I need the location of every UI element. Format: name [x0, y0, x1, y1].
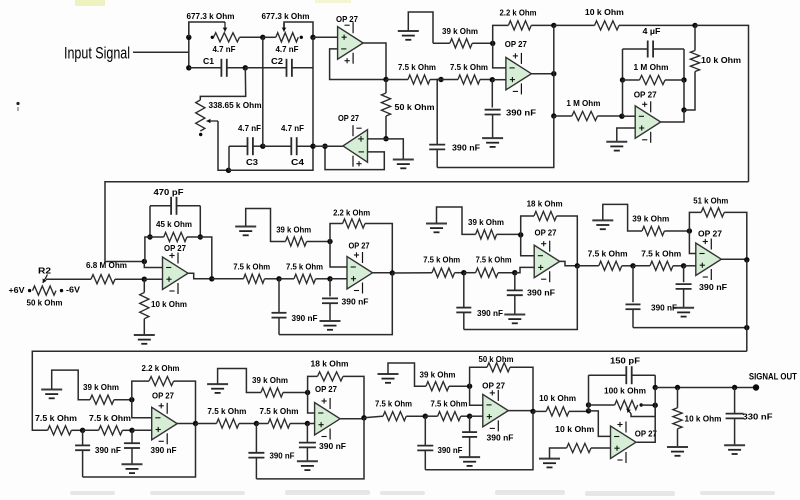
junction dot F (bottom wire)	[226, 168, 231, 173]
junction dot P (1M tap)	[551, 113, 556, 118]
ground symbol GC2	[504, 314, 525, 316]
svg-text:4.7 nF: 4.7 nF	[213, 44, 236, 54]
capacitor 390nF E-left	[82, 430, 84, 445]
resistor R 338.65k body (vertical)	[196, 100, 205, 131]
potentiometer 100k wiper	[631, 414, 656, 417]
junction dot E4 (stage E out)	[193, 421, 198, 426]
svg-text:OP 27: OP 27	[338, 113, 359, 123]
svg-text:50 k Ohm: 50 k Ohm	[395, 102, 435, 112]
junction dot U (U4 out node)	[681, 107, 686, 112]
svg-text:390 nF: 390 nF	[319, 441, 346, 451]
wire GB to 39k	[246, 209, 286, 242]
resistor 39k stage G	[426, 382, 449, 391]
capacitor C3	[229, 145, 247, 147]
svg-text:4.7 nF: 4.7 nF	[281, 123, 304, 133]
junction dot F4 (stage F out)	[361, 415, 366, 420]
svg-text:100 k Ohm: 100 k Ohm	[604, 385, 646, 395]
wire G1 to 39k	[408, 12, 433, 43]
resistor 51k	[689, 212, 701, 231]
junction dot H (C4 right)	[310, 144, 315, 149]
resistor 7.5k stage D #1	[577, 265, 599, 267]
capacitor C4	[263, 145, 291, 147]
ground symbol GD2	[673, 307, 694, 309]
wire node D vertical	[312, 37, 314, 146]
470pF left bracket	[149, 206, 151, 237]
svg-text:1 M Ohm: 1 M Ohm	[634, 62, 669, 72]
resistor 1M feedback	[623, 79, 640, 81]
junction dot F3 (39k/18k node)	[305, 390, 310, 395]
ground symbol GE2	[122, 463, 143, 465]
svg-text:10 k Ohm: 10 k Ohm	[701, 55, 741, 65]
resistor 10k stage A (vertical)	[143, 279, 145, 292]
svg-text:390 nF: 390 nF	[95, 445, 121, 455]
junction dot E3 (39k/2.2k node)	[129, 397, 134, 402]
resistor 7.5k stage C #1	[392, 272, 432, 274]
wire U3 +input	[492, 79, 506, 81]
svg-text:OP 27: OP 27	[635, 429, 657, 439]
op-amp U6	[347, 257, 373, 290]
junction dot D1 (39k/51k node)	[687, 228, 692, 233]
capacitor 390nF C-left	[463, 273, 465, 308]
junction dot F2 (+in node)	[305, 421, 310, 426]
potentiometer 100k body	[589, 404, 615, 406]
junction dot A2 (45k left)	[147, 234, 152, 239]
resistor 10k top	[554, 24, 595, 26]
svg-text:C3: C3	[246, 157, 258, 167]
ground symbol G3	[482, 137, 503, 139]
junction dot J (39k/2.2k node)	[490, 41, 495, 46]
capacitor 390nF row1 #1	[491, 80, 493, 108]
ground symbol G2	[393, 159, 414, 161]
svg-text:10 k Ohm: 10 k Ohm	[539, 393, 576, 403]
svg-text:7.5 k Ohm: 7.5 k Ohm	[89, 413, 131, 423]
resistor 7.5k stage G #1	[364, 416, 383, 418]
junction dot D4 (stage D out)	[744, 257, 749, 262]
wire U9 +input	[132, 429, 152, 431]
svg-text:390 nF: 390 nF	[506, 108, 536, 118]
svg-text:330 nF: 330 nF	[743, 411, 773, 421]
svg-text:2.2 k Ohm: 2.2 k Ohm	[142, 363, 180, 373]
wire GE to 39k	[52, 370, 90, 400]
capacitor 390nF D-left	[632, 266, 634, 302]
svg-text:39 k Ohm: 39 k Ohm	[420, 370, 456, 380]
svg-text:39 k Ohm: 39 k Ohm	[632, 213, 669, 223]
junction dot S (1M2 left)	[620, 77, 625, 82]
resistor 7.5k stage E #2	[83, 429, 99, 431]
svg-text:50 k Ohm: 50 k Ohm	[27, 298, 63, 308]
ground symbol GH3	[724, 444, 745, 446]
svg-text:390 nF: 390 nF	[452, 143, 480, 153]
op-amp U11	[483, 394, 509, 427]
potentiometer R2 wiper arrow	[43, 275, 48, 284]
resistor 2.2k row1	[493, 25, 509, 43]
capacitor 4uF left bracket	[622, 49, 624, 80]
svg-text:338.65 k Ohm: 338.65 k Ohm	[209, 100, 262, 110]
svg-text:OP 27: OP 27	[698, 228, 722, 238]
ground symbol GE	[41, 389, 62, 391]
op-amp U8	[696, 243, 722, 276]
wire U2 +input from 50k node	[368, 138, 387, 140]
svg-text:4 µF: 4 µF	[643, 26, 661, 36]
svg-text:45 k Ohm: 45 k Ohm	[156, 219, 192, 229]
svg-text:7.5 k Ohm: 7.5 k Ohm	[423, 255, 460, 265]
op-amp U5	[163, 257, 189, 290]
svg-text:7.5 k Ohm: 7.5 k Ohm	[450, 62, 488, 72]
resistor 39k row1	[433, 42, 450, 44]
svg-text:39 k Ohm: 39 k Ohm	[252, 375, 288, 385]
wire U12 output	[637, 405, 656, 442]
wire U12 -input	[589, 411, 611, 437]
junction dot B4 (stage B out)	[390, 270, 395, 275]
resistor 7.5k stage C #2	[464, 272, 476, 274]
svg-text:R2: R2	[38, 266, 51, 276]
stage G bottom wire	[425, 411, 533, 469]
wire U11 -input	[470, 386, 483, 405]
resistor 7.5k row1 #1	[386, 79, 408, 81]
wire 1M2 right down	[683, 80, 685, 110]
ground symbol GF2	[297, 460, 318, 462]
resistor 2.2k stage E	[132, 381, 149, 400]
resistor 18k stage F	[308, 376, 318, 392]
svg-text:4.7 nF: 4.7 nF	[276, 44, 299, 54]
wire U9 output	[177, 423, 195, 425]
junction dot C3n (+in node)	[512, 270, 517, 275]
resistor 39k stage E	[90, 395, 114, 404]
wire 45k right to output node	[200, 237, 212, 279]
svg-text:7.5 k Ohm: 7.5 k Ohm	[398, 62, 436, 72]
svg-text:10 k Ohm: 10 k Ohm	[685, 413, 722, 423]
resistor 7.5k stage B #1	[212, 278, 244, 280]
svg-text:7.5 k Ohm: 7.5 k Ohm	[476, 255, 512, 265]
junction dot E (C1 right)	[243, 65, 248, 70]
stage B bottom wire	[279, 273, 392, 335]
svg-text:-6V: -6V	[66, 285, 80, 295]
svg-text:390 nF: 390 nF	[342, 297, 369, 307]
svg-text:C2: C2	[271, 56, 283, 66]
svg-text:39 k Ohm: 39 k Ohm	[83, 382, 119, 392]
capacitor 390nF F-left	[255, 424, 257, 453]
svg-text:OP 27: OP 27	[349, 241, 370, 251]
wire GD to 39k	[603, 204, 642, 231]
capacitor 390nF B-left	[278, 279, 280, 313]
svg-text:390 nF: 390 nF	[527, 288, 555, 298]
junction dot D	[310, 35, 315, 40]
junction dot G3n (39k/50k node)	[467, 384, 472, 389]
svg-text:OP 27: OP 27	[634, 90, 657, 100]
wire U3 output	[531, 73, 553, 75]
junction dot B	[186, 65, 191, 70]
svg-text:OP 27: OP 27	[505, 39, 527, 49]
wire U2 output	[325, 145, 343, 147]
wire U9 -input	[132, 400, 152, 418]
op-amp U3	[506, 57, 532, 90]
junction dot A4 (+in node stage A)	[142, 277, 147, 282]
bottom wire to C4 node	[229, 146, 314, 170]
junction dot A3 (45k right)	[198, 234, 203, 239]
wire U4 +input to ground	[617, 128, 635, 142]
ground symbol GG	[378, 373, 399, 375]
junction dot F1	[254, 421, 259, 426]
svg-text:470 pF: 470 pF	[154, 187, 184, 197]
junction dot M (U3 +in node)	[490, 77, 495, 82]
resistor 45k	[150, 236, 164, 238]
junction dot V (10k vert top)	[692, 23, 697, 28]
junction dot O (U3 out)	[551, 71, 556, 76]
junction dot C (between 677.3k resistors)	[260, 35, 265, 40]
ground symbol GA	[134, 334, 155, 336]
svg-text:390 nF: 390 nF	[270, 450, 295, 460]
ground symbol GF	[207, 383, 228, 385]
junction dot H3 (output node)	[653, 385, 658, 390]
wire U6 -input	[330, 242, 347, 268]
junction dot H6	[732, 385, 737, 390]
svg-text:677.3 k Ohm: 677.3 k Ohm	[187, 11, 235, 21]
svg-text:150 pF: 150 pF	[610, 355, 640, 365]
svg-text:390 nF: 390 nF	[151, 445, 177, 455]
junction dot Q (U2 fb)	[322, 144, 327, 149]
wire U8 -input	[689, 231, 695, 254]
capacitor 390nF row1 #2	[437, 79, 441, 81]
junction dot G2n (+in node)	[467, 414, 472, 419]
svg-text:7.5 k Ohm: 7.5 k Ohm	[641, 249, 681, 259]
wire U5 +input	[144, 278, 162, 280]
svg-text:390 nF: 390 nF	[477, 308, 503, 318]
wire U10 +input	[307, 423, 314, 425]
ground symbol GB	[235, 226, 256, 228]
resistor 7.5k stage E #1	[48, 426, 72, 435]
svg-text:18 k Ohm: 18 k Ohm	[311, 359, 349, 369]
junction dot B1 (39k/2.2k node)	[327, 239, 332, 244]
svg-text:OP 27: OP 27	[336, 14, 358, 24]
junction dot D3 (+in node)	[681, 263, 686, 268]
junction dot A	[186, 35, 191, 40]
junction dot K (2.2k to U3 out top)	[551, 23, 556, 28]
junction dot A5 (stage A out)	[209, 276, 214, 281]
op-amp U4	[635, 106, 661, 139]
resistor 50k vertical	[385, 80, 387, 94]
node left vertical	[188, 22, 190, 68]
svg-text:7.5 k Ohm: 7.5 k Ohm	[286, 262, 323, 272]
junction dot D2	[630, 263, 635, 268]
svg-text:7.5 k Ohm: 7.5 k Ohm	[260, 406, 299, 416]
junction dot C1n (39k/18k node)	[518, 232, 523, 237]
capacitor 390nF B-mid	[329, 279, 331, 297]
svg-text:390 nF: 390 nF	[699, 282, 727, 292]
junction dot E1	[80, 428, 85, 433]
wire input to node	[133, 51, 189, 53]
resistor 7.5k stage B #2	[279, 278, 294, 280]
capacitor 150pF	[589, 374, 627, 376]
capacitor 4uF right bracket	[683, 49, 685, 80]
resistor 18k	[521, 216, 534, 235]
junction dot N (U2 +in node)	[383, 136, 388, 141]
150pF left bracket	[588, 375, 590, 411]
svg-text:Input Signal: Input Signal	[64, 44, 130, 63]
ground symbol GG2	[459, 456, 480, 458]
resistor R 677.3k #1 wiper bracket	[189, 22, 225, 37]
svg-text:OP 27: OP 27	[482, 380, 505, 390]
junction dot H4 (100k right node)	[653, 403, 658, 408]
svg-text:390 nF: 390 nF	[292, 313, 318, 323]
ground symbol GD	[592, 219, 613, 221]
wire U10 -input	[308, 393, 315, 414]
resistor 7.5k stage D #2	[633, 265, 650, 267]
wire U11 +input	[470, 415, 483, 417]
150pF right bracket	[654, 375, 656, 387]
svg-text:OP 27: OP 27	[164, 243, 186, 253]
potentiometer R2 body	[28, 289, 31, 292]
long wire row2 to row3	[32, 351, 747, 430]
wire U8 +input	[684, 265, 696, 267]
capacitor 390nF C-mid	[514, 273, 516, 291]
svg-text:4.7 nF: 4.7 nF	[238, 123, 261, 133]
svg-text:6.8 M Ohm: 6.8 M Ohm	[86, 260, 127, 270]
wire row1 output to row2 (top right)	[695, 25, 749, 181]
svg-text:2.2 k Ohm: 2.2 k Ohm	[333, 208, 370, 218]
wire 100k/150pF node vertical	[654, 388, 656, 406]
wire U6 output	[373, 272, 393, 274]
wire U2 +input to ground	[386, 139, 403, 160]
wire GF to 39k	[218, 369, 261, 393]
junction dot G (between C3 C4)	[260, 144, 265, 149]
junction dot G1n	[423, 414, 428, 419]
wire D out vertical	[746, 260, 748, 352]
svg-text:7.5 k Ohm: 7.5 k Ohm	[375, 399, 412, 409]
junction dot B2	[276, 276, 281, 281]
ground symbol G1	[398, 30, 419, 32]
svg-text:2.2 k Ohm: 2.2 k Ohm	[500, 8, 537, 18]
wire U7 -input	[521, 235, 535, 256]
junction dot H2 (input node upper)	[586, 402, 591, 407]
wire U1 -input feedback	[330, 49, 386, 80]
terminal dot SIGNAL OUT	[753, 384, 759, 390]
svg-text:7.5 k Ohm: 7.5 k Ohm	[207, 406, 246, 416]
resistor R 677.3k #2 wiper bracket	[284, 22, 313, 37]
resistor 39k stage B	[286, 237, 307, 246]
wire U10 output	[340, 418, 364, 420]
wire GG to 39k	[388, 363, 426, 386]
op-amp U7	[534, 245, 560, 278]
resistor 10k output (vertical)	[677, 388, 679, 408]
svg-text:10 k Ohm: 10 k Ohm	[555, 424, 594, 434]
junction dot B3 (+in node)	[327, 276, 332, 281]
resistor 39k stage F	[261, 388, 283, 397]
svg-text:C4: C4	[291, 157, 304, 167]
junction dot H5	[675, 385, 680, 390]
resistor R 677.3k #2 body	[263, 36, 276, 38]
capacitor 390nF G-mid	[469, 416, 471, 432]
svg-text:10 k Ohm: 10 k Ohm	[151, 299, 187, 309]
resistor 7.5k stage G #2	[425, 415, 437, 417]
resistor 7.5k stage F #2	[256, 423, 268, 425]
wire U4 output	[661, 110, 684, 122]
resistor 10k stage H in	[533, 410, 546, 412]
svg-text:7.5 k Ohm: 7.5 k Ohm	[233, 262, 270, 272]
junction dot I (U1 out node)	[383, 77, 388, 82]
capacitor 330nF	[734, 388, 736, 414]
svg-text:7.5 k Ohm: 7.5 k Ohm	[431, 399, 468, 409]
wire U3 -input	[493, 43, 506, 68]
op-amp U12	[611, 426, 637, 459]
bottom edge artifacts	[70, 490, 775, 496]
resistor 50k stage G	[470, 367, 487, 386]
svg-text:+6V: +6V	[9, 285, 25, 295]
ground symbol GH1	[539, 458, 560, 460]
yellow smudge artifacts	[75, 0, 105, 6]
svg-text:39 k Ohm: 39 k Ohm	[442, 26, 478, 36]
stage E bottom wire	[83, 424, 196, 478]
speck artifact left	[16, 102, 19, 105]
svg-text:7.5 k Ohm: 7.5 k Ohm	[588, 249, 628, 259]
stage C bottom wire	[464, 266, 578, 330]
ground symbol GH2	[667, 446, 688, 448]
wire U8 output	[721, 258, 747, 260]
resistor 39k stage C	[476, 230, 497, 239]
wire U7 +input	[515, 267, 534, 272]
bottom wire row1 (to 1M tap)	[437, 116, 554, 168]
wire U1 +input	[313, 36, 338, 38]
ground symbol GC	[426, 223, 447, 225]
resistor 7.5k row1 #2	[441, 79, 458, 81]
svg-text:51 k Ohm: 51 k Ohm	[693, 195, 728, 205]
resistor 39k stage D	[642, 226, 664, 235]
wire U4 -input	[622, 115, 635, 117]
wire C1-right down to 338.65k	[200, 68, 245, 100]
junction dot T (1M2 right)	[681, 77, 686, 82]
470pF right bracket	[199, 206, 201, 237]
wire node C vertical	[262, 37, 264, 146]
svg-text:390 nF: 390 nF	[651, 303, 677, 313]
long wire row1 to row2	[105, 182, 749, 262]
wire U1 output	[363, 43, 386, 80]
wire U6 +input	[330, 278, 347, 280]
svg-text:390 nF: 390 nF	[438, 445, 463, 455]
capacitor 390nF D-mid	[683, 266, 685, 282]
wire U5 output	[188, 273, 212, 279]
svg-text:10 k Ohm: 10 k Ohm	[585, 7, 624, 17]
resistor R 338.65k wiper arrow and wire	[207, 120, 219, 122]
wire 1M2 left down	[622, 80, 624, 116]
svg-text:1 M Ohm: 1 M Ohm	[566, 98, 600, 108]
resistor 10k vertical right	[694, 25, 696, 50]
svg-text:390 nF: 390 nF	[487, 432, 514, 442]
junction dot E2 (+in node)	[129, 428, 134, 433]
capacitor 470pF	[150, 205, 171, 207]
op-amp U1	[338, 27, 364, 60]
junction dot C2n	[461, 270, 466, 275]
svg-text:C1: C1	[203, 56, 214, 66]
op-amp U9	[152, 407, 178, 440]
wire U2 -input feedback	[325, 146, 384, 169]
wire GC to 39k	[437, 207, 476, 234]
svg-text:677.3 k Ohm: 677.3 k Ohm	[262, 11, 310, 21]
svg-text:18 k Ohm: 18 k Ohm	[527, 199, 563, 209]
op-amp U2	[343, 130, 368, 163]
stage D bottom wire	[633, 327, 747, 329]
svg-text:OP 27: OP 27	[315, 384, 337, 394]
wire 45k left to -in node	[145, 237, 150, 262]
junction dot L	[438, 77, 443, 82]
capacitor 4uF	[623, 48, 648, 50]
output line	[655, 387, 756, 389]
svg-text:OP 27: OP 27	[535, 228, 557, 238]
resistor 2.2k stage B	[330, 224, 343, 242]
junction dot D5 (bottom/descend)	[744, 325, 749, 330]
capacitor 390nF F-mid	[306, 424, 308, 443]
resistor 1M row1	[554, 115, 572, 117]
svg-text:OP 27: OP 27	[152, 391, 174, 401]
wire U7 output	[560, 261, 578, 265]
